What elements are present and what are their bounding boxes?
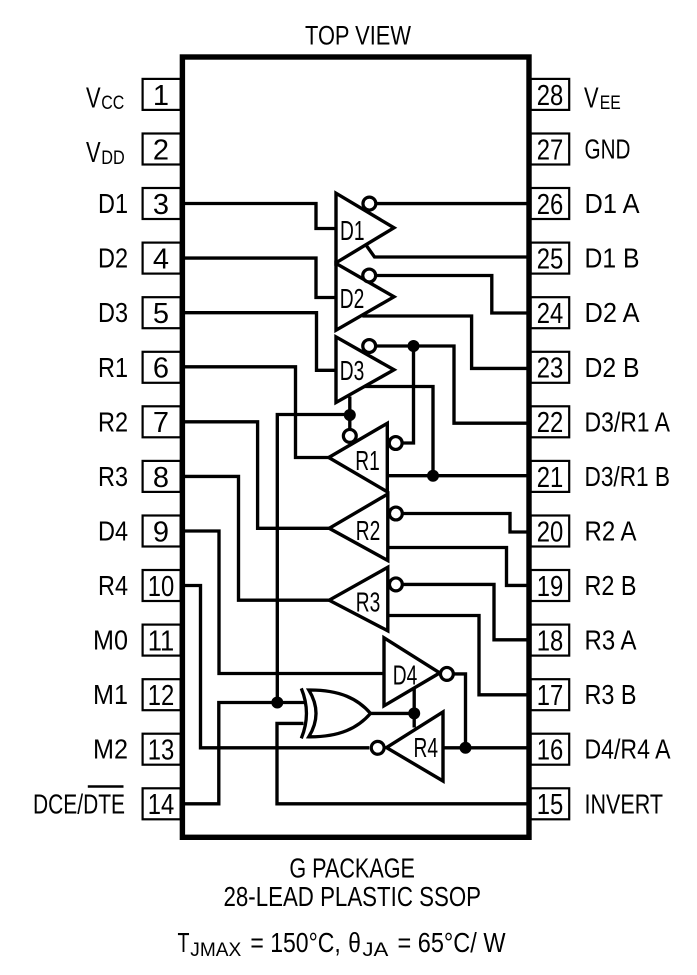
svg-text:28-LEAD PLASTIC SSOP: 28-LEAD PLASTIC SSOP: [224, 881, 482, 912]
wire D3 output B down to pin-21 net: [362, 387, 433, 476]
svg-text:D4: D4: [393, 660, 418, 691]
svg-text:D1 A: D1 A: [585, 188, 641, 219]
svg-text:JMAX: JMAX: [190, 940, 241, 961]
wire D3 output A branch to R1 input A bubble: [402, 346, 413, 443]
svg-text:M2: M2: [93, 734, 128, 765]
svg-text:15: 15: [537, 789, 564, 821]
XOR gate U1 (invert control): [301, 688, 370, 738]
svg-text:R2: R2: [356, 515, 381, 546]
wire pin21 net: R1 input B to pin 21: [387, 474, 531, 477]
pin 1 box: [143, 79, 181, 110]
svg-text:18: 18: [537, 626, 564, 658]
svg-text:3: 3: [153, 189, 169, 221]
svg-text:D2: D2: [98, 243, 128, 274]
svg-text:2: 2: [153, 134, 169, 166]
pin 17 box: [531, 679, 570, 710]
bubble: D1 inverted output A: [363, 197, 376, 210]
svg-text:13: 13: [148, 735, 175, 767]
wire pin9 D4-input: pin 9 to driver D4: [183, 531, 383, 674]
wire pin6 R1-output: receiver R1 to pin 6: [183, 367, 330, 458]
bubble: D4 inverted output: [440, 667, 453, 680]
svg-text:M0: M0: [93, 625, 128, 656]
svg-text:R3 B: R3 B: [585, 679, 637, 710]
pin 20 box: [531, 516, 570, 547]
svg-text:G PACKAGE: G PACKAGE: [289, 853, 415, 884]
svg-text:D3: D3: [98, 297, 128, 328]
svg-text:R4: R4: [98, 570, 128, 601]
wire pin10 R4-output: receiver R4 bubble to pin 10: [183, 586, 369, 748]
pin 26 box: [531, 188, 570, 219]
bubble: R1 inverting input A: [389, 437, 402, 450]
svg-text:12: 12: [148, 680, 175, 712]
bubble: R4 inverting output: [371, 741, 384, 754]
wire D3 output A (inverted) to pin 22: [376, 346, 531, 423]
pin 6 box: [143, 352, 181, 383]
svg-text:R1: R1: [355, 445, 380, 476]
svg-text:R3: R3: [98, 461, 128, 492]
pin 2 box: [143, 134, 181, 165]
svg-text:9: 9: [153, 516, 169, 548]
wire R2 input B to pin 19: [388, 548, 531, 586]
pin 3 box: [143, 188, 181, 219]
wire R3 input A bubble to pin 18: [402, 584, 530, 639]
pin 8 box: [143, 461, 181, 492]
driver D4 (triangle): [384, 638, 440, 706]
svg-text:14: 14: [148, 789, 175, 821]
svg-text:D1: D1: [98, 188, 128, 219]
pin 10 box: [143, 570, 181, 601]
svg-text:19: 19: [537, 571, 564, 603]
bubble: R3 inverting input A: [389, 578, 402, 591]
svg-text:D2 A: D2 A: [585, 297, 641, 328]
junction DCE/DTE at XOR input: [271, 697, 283, 709]
svg-text:D4/R4 A: D4/R4 A: [585, 734, 672, 765]
junction DCE/DTE control at D3/R1: [344, 409, 356, 421]
pin 5 box: [143, 297, 181, 328]
pin 21 box: [531, 461, 570, 492]
wire pin14 DCE/DTE control to XOR upper input: [183, 703, 306, 804]
svg-text:= 150°C,: = 150°C,: [250, 927, 340, 958]
svg-text:= 65°C/ W: = 65°C/ W: [398, 927, 506, 958]
wire pin4 D2-input: pin 4 to driver D2: [183, 258, 335, 297]
svg-text:16: 16: [537, 735, 564, 767]
svg-text:22: 22: [537, 407, 564, 439]
wire D4 output (inverted) down to pin-16 net: [453, 674, 465, 748]
pin 22 box: [531, 406, 570, 437]
svg-text:R3 A: R3 A: [585, 625, 638, 656]
junction D3-B / R1-B net: [427, 470, 439, 482]
junction XOR output: [408, 707, 420, 719]
svg-text:4: 4: [153, 244, 169, 276]
svg-text:V: V: [86, 82, 101, 114]
wire D1 output B to pin 25: [365, 244, 530, 257]
svg-text:17: 17: [537, 680, 564, 712]
svg-text:6: 6: [153, 353, 169, 385]
driver D3 (triangle): [336, 337, 394, 403]
junction D4 output / R4 input: [460, 742, 472, 754]
svg-text:7: 7: [153, 407, 169, 439]
svg-text:EE: EE: [600, 93, 621, 114]
svg-text:R3: R3: [356, 587, 381, 618]
bubble: R2 inverting input A: [389, 507, 402, 520]
svg-text:R1: R1: [98, 352, 128, 383]
svg-text:TOP VIEW: TOP VIEW: [305, 21, 411, 51]
receiver R1 (triangle): [329, 423, 388, 492]
svg-text:27: 27: [537, 134, 564, 166]
svg-text:V: V: [86, 137, 101, 169]
svg-text:R4: R4: [414, 732, 439, 763]
svg-text:1: 1: [153, 80, 169, 112]
pin 16 box: [531, 734, 570, 765]
wire pin15 INVERT to XOR lower input: [277, 723, 531, 803]
svg-text:V: V: [584, 82, 599, 114]
svg-text:θ: θ: [348, 927, 361, 958]
receiver R4 (triangle): [387, 712, 444, 781]
bubble: D3 inverted output A: [363, 340, 376, 353]
pin 25 box: [531, 243, 570, 274]
overline on DTE: [88, 785, 124, 787]
wire R2 input A bubble to pin 20: [402, 514, 530, 533]
svg-text:10: 10: [148, 571, 175, 603]
svg-text:D1 B: D1 B: [585, 243, 640, 274]
svg-text:CC: CC: [101, 93, 124, 114]
pin 13 box: [143, 734, 181, 765]
wire D2 output A (inverted) to pin 24: [376, 276, 531, 314]
svg-text:R2 A: R2 A: [585, 516, 638, 547]
pin 24 box: [531, 297, 570, 328]
svg-text:11: 11: [148, 626, 175, 658]
receiver R3 (triangle): [329, 567, 388, 631]
svg-text:21: 21: [537, 462, 564, 494]
wire D1 output A (inverted) to pin 26: [376, 202, 531, 205]
wire XOR output to D4/R4 invert controls: [371, 712, 414, 715]
pin 9 box: [143, 516, 181, 547]
svg-text:INVERT: INVERT: [585, 788, 664, 819]
pin 19 box: [531, 570, 570, 601]
wire XOR output stub into D4 and R4 edges: [413, 688, 416, 728]
svg-text:M1: M1: [93, 679, 128, 710]
pin 18 box: [531, 625, 570, 656]
wire R3 input B to pin 17: [388, 616, 531, 695]
wire pin16 net: R4 input B to pin 16 D4/R4 A: [443, 746, 531, 749]
svg-text:D3: D3: [340, 355, 365, 386]
wire DCE/DTE branch up to D3/R1 direction control: [277, 415, 350, 703]
wire D3 enable stub / R1 enable bubble stub: [348, 397, 351, 430]
wire pin7 R2-output: receiver R2 to pin 7: [183, 422, 330, 529]
driver D2 (triangle): [336, 263, 394, 330]
bubble: R1 enable (on top edge): [343, 429, 356, 442]
receiver R2 (triangle): [329, 494, 388, 561]
svg-text:DD: DD: [101, 148, 125, 169]
svg-text:R2: R2: [98, 406, 128, 437]
pin 15 box: [531, 788, 570, 819]
pin 23 box: [531, 352, 570, 383]
svg-text:D2: D2: [340, 283, 365, 314]
svg-text:23: 23: [537, 353, 564, 385]
svg-text:5: 5: [153, 298, 169, 330]
wire pin5 D3-input: pin 5 to driver D3: [183, 313, 335, 371]
svg-text:D3/R1 A: D3/R1 A: [585, 406, 671, 437]
pin 4 box: [143, 243, 181, 274]
svg-text:28: 28: [537, 80, 564, 112]
svg-text:T: T: [178, 927, 190, 958]
svg-text:26: 26: [537, 189, 564, 221]
svg-text:DCE/DTE: DCE/DTE: [33, 788, 125, 819]
svg-text:D3/R1 B: D3/R1 B: [585, 461, 671, 492]
svg-text:D2 B: D2 B: [585, 352, 640, 383]
junction D3-A / R1-A net: [408, 340, 420, 352]
pin 7 box: [143, 406, 181, 437]
svg-text:20: 20: [537, 516, 564, 548]
svg-text:D1: D1: [340, 215, 365, 246]
wire pin3 D1-input: pin 3 to driver D1: [183, 204, 335, 229]
pin 14 box: [143, 788, 181, 819]
svg-text:JA: JA: [362, 940, 388, 961]
pin 27 box: [531, 134, 570, 165]
svg-text:D4: D4: [98, 516, 128, 547]
svg-text:8: 8: [153, 462, 169, 494]
svg-text:GND: GND: [585, 134, 631, 165]
svg-text:25: 25: [537, 244, 564, 276]
wire pin8 R3-output: receiver R3 to pin 8: [183, 476, 330, 600]
pin 12 box: [143, 679, 181, 710]
svg-text:R2 B: R2 B: [585, 570, 637, 601]
svg-text:24: 24: [537, 298, 564, 330]
wire D2 output B to pin 23: [362, 316, 530, 368]
pin 28 box: [531, 79, 570, 110]
IC package outline (28-lead SSOP body): [182, 57, 529, 837]
driver D1 (triangle): [336, 193, 394, 263]
pin 11 box: [143, 625, 181, 656]
bubble: D2 inverted output A: [363, 269, 376, 282]
